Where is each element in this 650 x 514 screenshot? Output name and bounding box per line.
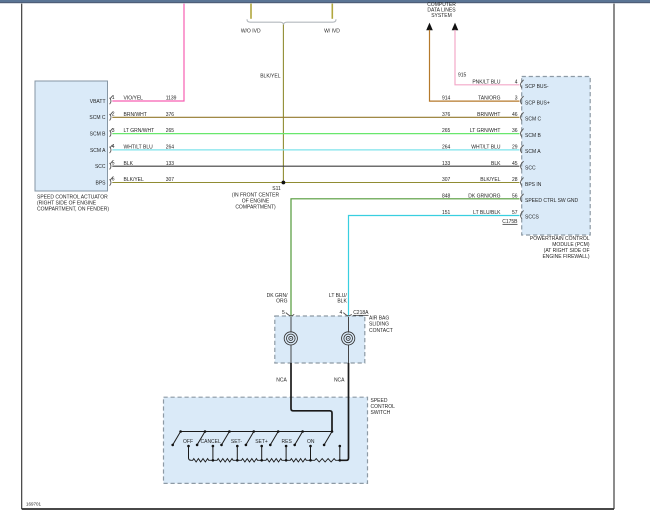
wire DK GRN/ORG circuit 848: [291, 199, 520, 317]
svg-text:COMPARTMENT): COMPARTMENT): [235, 205, 276, 211]
resistor R3 SET--SET+: [237, 459, 261, 462]
clockspring coil right exit: [348, 345, 350, 363]
PCM pin 29 connector: [521, 145, 524, 153]
clockspring coil left: [284, 332, 297, 345]
clockspring coil left lead: [290, 317, 292, 333]
splice S11: [282, 181, 286, 185]
svg-text:SCC: SCC: [525, 166, 536, 172]
svg-text:SCP BUS-: SCP BUS-: [525, 84, 549, 90]
PCM pin 56 connector: [521, 194, 524, 202]
PCM pin 46 connector: [521, 112, 524, 120]
wire BLK circuit 133: [112, 165, 519, 167]
svg-text:BPS IN: BPS IN: [525, 182, 542, 188]
PCM pin 45 connector: [521, 161, 524, 169]
svg-text:COMPARTMENT, ON FENDER): COMPARTMENT, ON FENDER): [37, 207, 109, 213]
svg-text:ON: ON: [307, 439, 315, 445]
svg-text:LT BLU/BLK: LT BLU/BLK: [473, 210, 501, 216]
svg-text:BLK: BLK: [337, 299, 347, 305]
svg-text:SWITCH: SWITCH: [371, 410, 391, 416]
svg-text:4: 4: [112, 144, 115, 150]
wire W/O IVD stub (BLK/YEL): [250, 4, 252, 19]
svg-text:WHT/LT BLU: WHT/LT BLU: [471, 145, 501, 151]
svg-text:6: 6: [112, 177, 115, 183]
svg-text:914: 914: [442, 96, 451, 102]
PCM pin 36 connector: [521, 129, 524, 137]
switch bus wire: [181, 431, 332, 433]
powertrain control module box: [522, 77, 591, 236]
svg-text:BLK/YEL: BLK/YEL: [260, 74, 281, 80]
wire LT BLU/BLK circuit 151: [349, 216, 520, 317]
svg-text:4: 4: [340, 310, 343, 316]
bottom page border: [22, 508, 614, 510]
bus junction dots: [179, 430, 182, 433]
svg-text:ORG: ORG: [276, 299, 288, 305]
svg-text:915: 915: [458, 72, 467, 78]
svg-text:169701: 169701: [26, 502, 42, 507]
air bag pin 4 connector: [343, 313, 351, 316]
resistor R2 CANCEL-SET-: [213, 459, 237, 462]
svg-text:BLK/YEL: BLK/YEL: [124, 177, 145, 183]
svg-text:5: 5: [282, 310, 285, 316]
svg-text:C175B: C175B: [502, 219, 518, 225]
svg-text:848: 848: [442, 193, 451, 199]
svg-text:CANCEL: CANCEL: [201, 439, 222, 445]
svg-text:ENGINE FIREWALL): ENGINE FIREWALL): [542, 254, 589, 260]
actuator pin 4 connector: [110, 145, 113, 153]
resistor R4 SET+-RES: [262, 459, 286, 462]
output contact drop wires: [189, 446, 192, 460]
actuator pin 3 connector: [110, 128, 113, 136]
brace joining IVD options: [247, 19, 336, 25]
arrow to data lines (TAN/ORG): [426, 23, 433, 31]
svg-text:PNK/LT BLU: PNK/LT BLU: [472, 79, 501, 85]
switch CANCEL blade: [197, 432, 205, 445]
svg-text:3: 3: [515, 96, 518, 102]
wire BLK/YEL vertical to S11: [282, 25, 284, 183]
top header bar: [0, 0, 650, 2]
svg-text:SLIDING: SLIDING: [369, 322, 389, 328]
actuator pin 5 connector: [110, 161, 113, 169]
svg-text:BRN/WHT: BRN/WHT: [124, 112, 147, 118]
svg-text:2: 2: [112, 112, 115, 118]
resistor R6 ON-7: [311, 459, 340, 462]
PCM pin 4 connector: [521, 80, 524, 88]
svg-text:1139: 1139: [166, 96, 177, 102]
svg-text:376: 376: [442, 112, 451, 118]
svg-text:4: 4: [515, 79, 518, 85]
svg-text:BLK: BLK: [124, 161, 134, 167]
PCM pin 57 connector: [521, 211, 524, 219]
svg-text:57: 57: [512, 210, 518, 216]
svg-text:45: 45: [512, 161, 518, 167]
svg-text:SCC: SCC: [95, 164, 106, 170]
resistor R5 RES-ON: [286, 459, 310, 462]
svg-text:SCM A: SCM A: [90, 148, 106, 154]
wire W/ IVD stub (BLK/YEL): [331, 4, 333, 19]
svg-text:BLK: BLK: [491, 161, 501, 167]
svg-text:SCM C: SCM C: [89, 115, 106, 121]
svg-text:LT GRN/WHT: LT GRN/WHT: [470, 128, 501, 134]
resistor R1 OFF-CANCEL: [191, 459, 213, 462]
svg-text:SCM C: SCM C: [525, 117, 542, 123]
wire TAN/ORG circuit 914: [430, 30, 520, 101]
switch ON blade: [295, 432, 303, 445]
wire PNK/LT BLU circuit 915: [455, 30, 520, 85]
wire NCA right: [340, 363, 349, 460]
wire VIO/YEL circuit 1139: [112, 4, 184, 101]
arrow to data lines (PNK/LT BLU): [452, 23, 459, 31]
svg-text:OFF: OFF: [183, 439, 193, 445]
svg-text:AIR BAG: AIR BAG: [369, 316, 389, 322]
svg-text:46: 46: [512, 112, 518, 118]
clockspring coil right lead: [348, 317, 350, 333]
svg-text:W/O IVD: W/O IVD: [241, 28, 261, 34]
switch SET- blade: [222, 432, 230, 445]
svg-text:DK GRN/ORG: DK GRN/ORG: [468, 193, 500, 199]
svg-text:264: 264: [166, 145, 175, 151]
svg-text:133: 133: [442, 161, 451, 167]
svg-text:LT GRN/WHT: LT GRN/WHT: [124, 128, 155, 134]
actuator pin 2 connector: [110, 112, 113, 120]
PCM pin 3 connector: [521, 96, 524, 104]
speed control actuator box: [35, 81, 108, 191]
wire WHT/LT BLU circuit 264: [112, 149, 519, 151]
svg-text:1: 1: [112, 95, 115, 101]
svg-text:TAN/ORG: TAN/ORG: [478, 96, 501, 102]
svg-text:W/ IVD: W/ IVD: [324, 28, 340, 34]
svg-text:28: 28: [512, 177, 518, 183]
svg-text:376: 376: [166, 112, 175, 118]
air bag sliding contact box: [275, 316, 365, 363]
svg-text:151: 151: [442, 210, 451, 216]
svg-text:SET+: SET+: [255, 439, 268, 445]
svg-text:CONTACT: CONTACT: [369, 328, 393, 334]
svg-text:WHT/LT BLU: WHT/LT BLU: [124, 145, 154, 151]
speed control switch box: [164, 397, 368, 483]
svg-text:S11: S11: [272, 186, 281, 192]
svg-text:SCM A: SCM A: [525, 149, 541, 155]
svg-text:264: 264: [442, 145, 451, 151]
svg-text:SPEED CTRL SW GND: SPEED CTRL SW GND: [525, 198, 579, 204]
svg-text:BPS: BPS: [95, 180, 106, 186]
switch OFF blade: [173, 432, 181, 445]
air bag pin 5 connector: [286, 313, 294, 316]
switch RES blade: [270, 432, 278, 445]
wire NCA left: [291, 363, 332, 432]
wire BRN/WHT circuit 376: [112, 116, 519, 118]
svg-text:VBATT: VBATT: [90, 99, 106, 105]
right page border: [613, 4, 615, 509]
chain junction dots: [212, 459, 215, 462]
svg-text:SCM B: SCM B: [90, 132, 107, 138]
svg-text:SET-: SET-: [231, 439, 242, 445]
switch SET+ blade: [246, 432, 254, 445]
left page border: [21, 4, 23, 509]
svg-text:307: 307: [166, 177, 175, 183]
wire LT GRN/WHT circuit 265: [112, 133, 519, 135]
svg-text:56: 56: [512, 193, 518, 199]
svg-text:C218A: C218A: [353, 310, 369, 316]
svg-text:VIO/YEL: VIO/YEL: [124, 96, 144, 102]
switch 7 blade: [324, 432, 332, 445]
svg-text:29: 29: [512, 145, 518, 151]
svg-text:SCM B: SCM B: [525, 133, 542, 139]
svg-text:SYSTEM: SYSTEM: [431, 13, 452, 19]
wire BLK/YEL circuit 307: [112, 182, 519, 184]
svg-text:3: 3: [112, 128, 115, 134]
clockspring coil left exit: [290, 345, 292, 363]
svg-text:133: 133: [166, 161, 175, 167]
clockspring coil right: [342, 332, 355, 345]
svg-text:RES: RES: [282, 439, 293, 445]
switch output contacts: [187, 445, 190, 448]
svg-text:265: 265: [166, 128, 175, 134]
svg-text:NCA: NCA: [334, 378, 345, 384]
svg-text:BLK/YEL: BLK/YEL: [480, 177, 501, 183]
svg-text:BRN/WHT: BRN/WHT: [477, 112, 500, 118]
svg-text:307: 307: [442, 177, 451, 183]
actuator pin 1 connector: [110, 96, 113, 104]
actuator pin 6 connector: [110, 177, 113, 185]
PCM pin 28 connector: [521, 178, 524, 186]
svg-text:265: 265: [442, 128, 451, 134]
svg-text:36: 36: [512, 128, 518, 134]
svg-text:5: 5: [112, 160, 115, 166]
svg-text:NCA: NCA: [276, 378, 287, 384]
svg-text:SCP BUS+: SCP BUS+: [525, 100, 550, 106]
svg-text:SCCS: SCCS: [525, 215, 540, 221]
